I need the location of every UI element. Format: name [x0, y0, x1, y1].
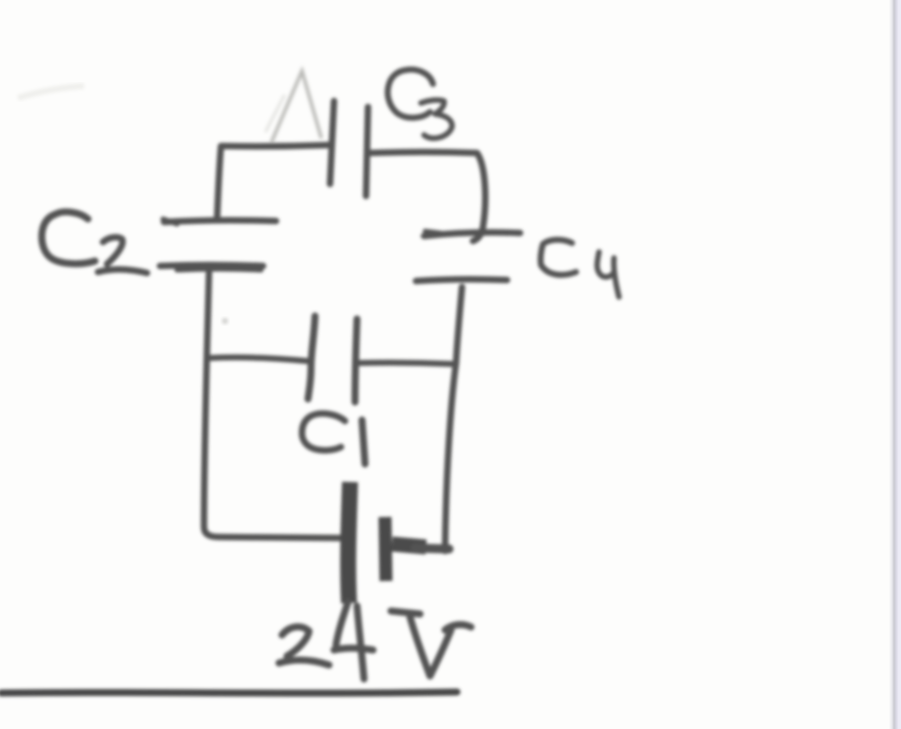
- faint top rule: [0, 50, 455, 53]
- capacitor C2: [160, 219, 276, 270]
- wire: C1 right lead to right bus: [359, 363, 453, 364]
- wire: C3 left lead down to C2 top: [217, 145, 331, 220]
- label C4: [541, 240, 619, 297]
- label 24V: [279, 602, 471, 679]
- wire: C3 right lead down to C4 top: [370, 152, 485, 241]
- scrollbar gutter line (right edge): [889, 0, 901, 729]
- label C3: [388, 70, 452, 139]
- wire: C2 bottom down, corner to battery + lead: [204, 273, 340, 538]
- battery 24V: long plate: [348, 482, 350, 603]
- wire: C4 bottom down right bus to battery: [445, 287, 462, 551]
- battery 24V: short plate: [385, 517, 386, 581]
- capacitor C3: [330, 101, 368, 196]
- label C1: [302, 414, 365, 464]
- faint pencil smudge top-left: [18, 86, 84, 98]
- capacitor C4: [416, 231, 520, 281]
- bottom rule: [1, 692, 457, 693]
- faint pencil dot near C2 wire: [222, 318, 228, 324]
- faint eraser caret smudge above C3: [266, 71, 321, 141]
- capacitor C1: [308, 316, 357, 402]
- wire: battery short plate to right bus: [392, 544, 449, 549]
- label C2: [42, 212, 147, 273]
- wire: branch junction to C1 left plate: [209, 357, 307, 361]
